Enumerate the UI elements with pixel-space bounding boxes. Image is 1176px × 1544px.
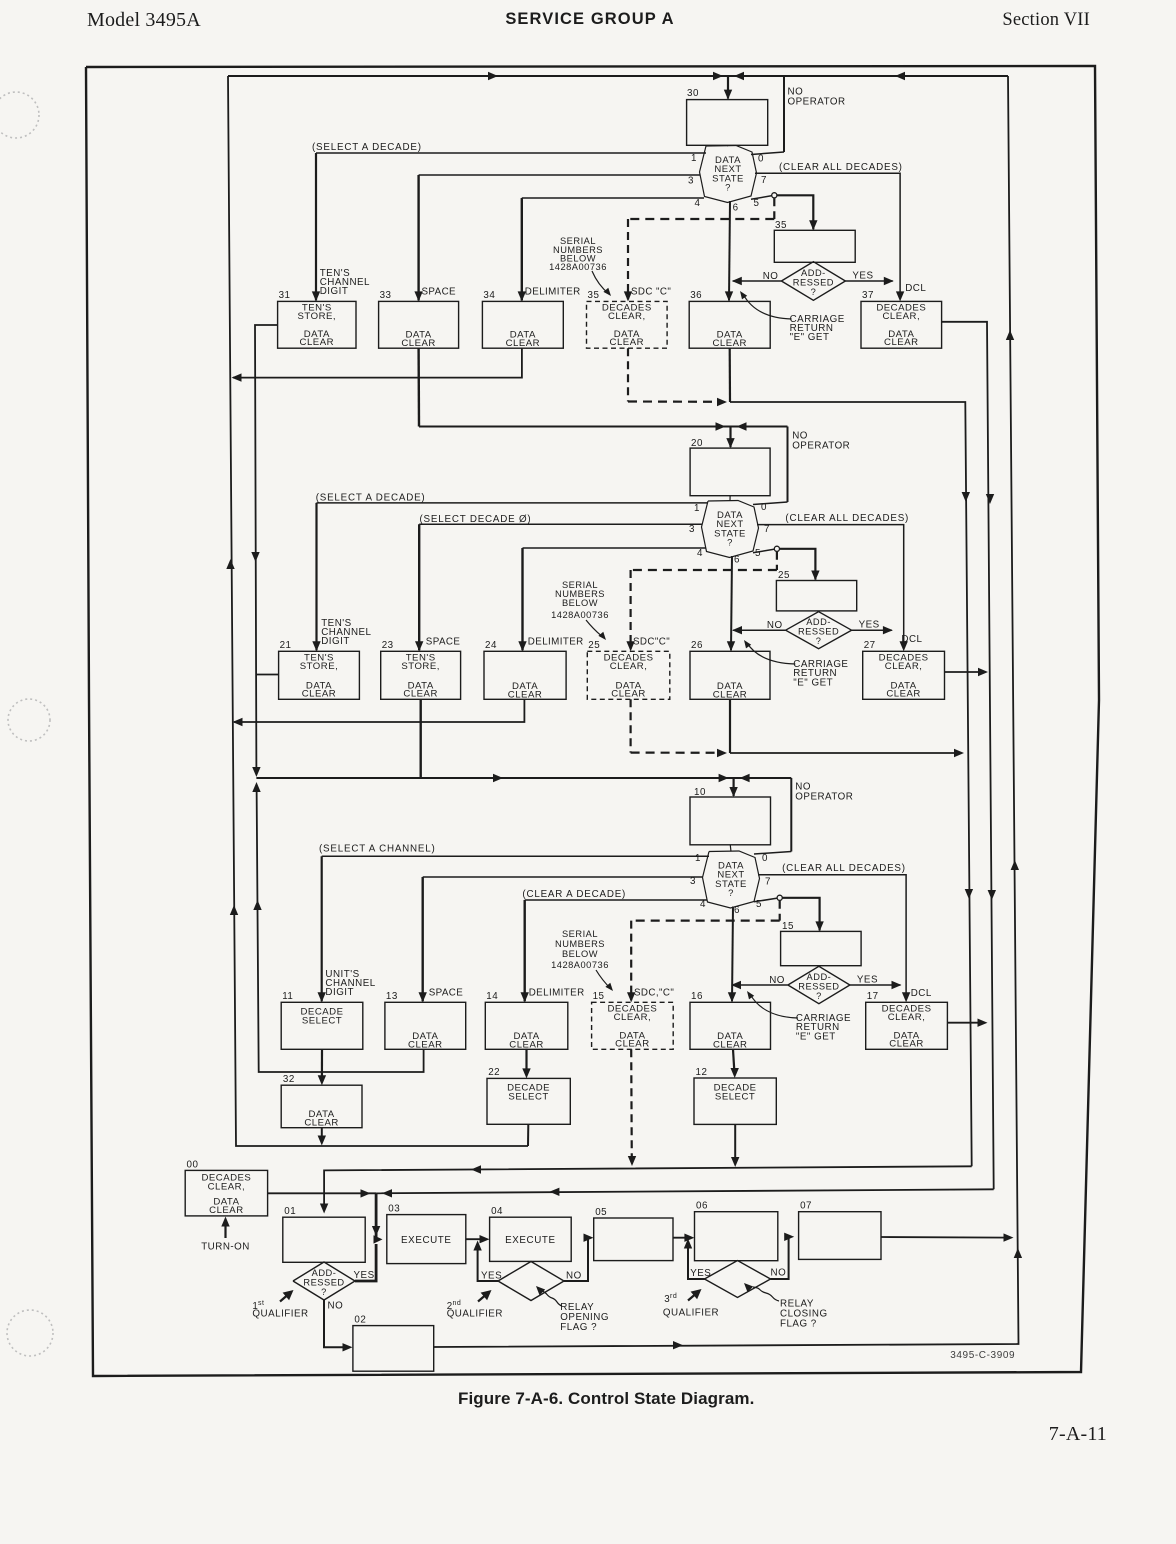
svg-text:32: 32 [283,1074,295,1085]
svg-text:DIGIT: DIGIT [320,286,349,297]
svg-text:31: 31 [279,290,291,301]
svg-text:34: 34 [483,290,495,301]
svg-text:BELOW: BELOW [562,598,598,608]
svg-text:YES: YES [481,1271,502,1282]
svg-text:DIGIT: DIGIT [325,987,354,998]
svg-text:CLEAR: CLEAR [611,688,646,699]
svg-text:(SELECT DECADE Ø): (SELECT DECADE Ø) [420,514,532,525]
svg-text:ADD-: ADD- [312,1268,337,1278]
svg-text:CLEAR,: CLEAR, [888,1012,926,1023]
svg-text:NO: NO [771,1268,787,1279]
svg-text:DCL: DCL [911,988,932,999]
svg-text:1428A00736: 1428A00736 [551,960,609,970]
svg-text:03: 03 [388,1204,400,1215]
svg-text:SDC"C": SDC"C" [633,636,670,647]
svg-text:CLEAR: CLEAR [300,337,335,348]
svg-text:6: 6 [734,905,740,916]
svg-text:02: 02 [354,1315,366,1326]
svg-text:SELECT: SELECT [508,1092,548,1103]
svg-text:?: ? [321,1287,327,1297]
svg-text:EXECUTE: EXECUTE [505,1235,555,1246]
svg-text:00: 00 [187,1160,199,1171]
svg-text:CLEAR,: CLEAR, [885,661,923,672]
svg-text:YES: YES [690,1268,711,1279]
svg-text:ADD-: ADD- [807,972,832,982]
svg-text:1428A00736: 1428A00736 [549,262,607,272]
svg-text:25: 25 [778,570,790,581]
svg-text:26: 26 [691,640,703,651]
svg-text:CLEAR: CLEAR [304,1118,339,1129]
svg-text:CLEAR,: CLEAR, [614,1012,652,1023]
svg-text:rd: rd [670,1293,677,1300]
svg-text:ADD-: ADD- [801,268,826,278]
svg-text:DCL: DCL [901,634,922,645]
svg-text:1: 1 [691,153,697,164]
svg-text:(SELECT A DECADE): (SELECT A DECADE) [312,142,422,153]
svg-text:3495-C-3909: 3495-C-3909 [950,1350,1015,1361]
svg-text:06: 06 [696,1201,708,1212]
svg-text:DELIMITER: DELIMITER [525,286,581,297]
svg-text:35: 35 [588,290,600,301]
svg-text:Model 3495A: Model 3495A [87,9,201,31]
svg-text:12: 12 [696,1067,708,1078]
svg-text:CLEAR,: CLEAR, [208,1182,246,1193]
svg-text:CLEAR: CLEAR [886,688,921,699]
svg-text:?: ? [816,636,822,646]
svg-text:7-A-11: 7-A-11 [1049,1423,1107,1445]
svg-text:CLEAR: CLEAR [401,338,436,349]
svg-text:TURN-ON: TURN-ON [201,1242,250,1253]
svg-text:CLEAR: CLEAR [615,1038,650,1049]
svg-text:SERVICE GROUP A: SERVICE GROUP A [505,10,674,28]
svg-text:14: 14 [486,991,498,1002]
svg-text:"E" GET: "E" GET [790,332,830,343]
svg-text:YES: YES [859,620,880,631]
svg-text:NO: NO [767,620,783,631]
svg-text:0: 0 [758,154,764,165]
svg-text:NO: NO [763,271,779,282]
svg-text:35: 35 [775,220,787,231]
svg-text:Figure 7-A-6. Control State D: Figure 7-A-6. Control State Diagram. [458,1389,754,1408]
svg-text:16: 16 [691,991,703,1002]
svg-text:?: ? [727,538,733,549]
svg-text:04: 04 [491,1206,503,1217]
svg-text:SDC "C": SDC "C" [631,286,671,297]
svg-text:STORE,: STORE, [401,661,440,672]
svg-text:CLEAR: CLEAR [713,689,748,700]
svg-text:1: 1 [694,503,700,514]
svg-text:7: 7 [761,175,767,186]
svg-text:0: 0 [762,853,768,864]
svg-text:CLEAR: CLEAR [508,689,543,700]
svg-text:CLEAR: CLEAR [209,1205,244,1216]
svg-text:DIGIT: DIGIT [321,636,350,647]
svg-text:DELIMITER: DELIMITER [529,987,585,998]
svg-text:CLEAR: CLEAR [403,688,438,699]
svg-text:YES: YES [857,975,878,986]
svg-text:24: 24 [485,640,497,651]
svg-text:FLAG ?: FLAG ? [780,1319,817,1330]
svg-text:OPERATOR: OPERATOR [795,792,853,803]
svg-text:YES: YES [354,1270,375,1281]
svg-text:YES: YES [852,271,873,282]
svg-text:?: ? [728,888,734,899]
svg-text:(SELECT A DECADE): (SELECT A DECADE) [316,492,426,503]
svg-text:6: 6 [734,555,740,566]
svg-text:ADD-: ADD- [806,617,831,627]
svg-text:7: 7 [764,524,770,535]
svg-text:NO: NO [769,975,785,986]
svg-text:CLEAR: CLEAR [884,337,919,348]
svg-text:BELOW: BELOW [562,949,598,959]
svg-text:21: 21 [280,640,292,651]
svg-text:(CLEAR ALL DECADES): (CLEAR ALL DECADES) [779,162,903,173]
svg-text:STORE,: STORE, [300,661,339,672]
svg-text:(CLEAR ALL DECADES): (CLEAR ALL DECADES) [782,863,906,874]
svg-text:OPERATOR: OPERATOR [792,441,850,452]
svg-text:CLEAR: CLEAR [889,1038,924,1049]
svg-text:CLEAR: CLEAR [408,1039,443,1050]
svg-text:(SELECT A CHANNEL): (SELECT A CHANNEL) [319,844,436,855]
svg-text:37: 37 [862,290,874,301]
svg-text:36: 36 [690,290,702,301]
svg-text:RESSED: RESSED [798,627,839,637]
svg-text:17: 17 [867,991,879,1002]
svg-text:Section VII: Section VII [1002,10,1090,30]
svg-text:FLAG ?: FLAG ? [560,1322,597,1333]
svg-text:?: ? [811,287,817,297]
svg-text:EXECUTE: EXECUTE [401,1235,451,1246]
svg-text:07: 07 [800,1201,812,1212]
svg-text:"E" GET: "E" GET [796,1032,836,1043]
svg-text:15: 15 [593,991,605,1002]
svg-text:7: 7 [765,877,771,888]
svg-text:RESSED: RESSED [793,278,834,288]
svg-text:STORE,: STORE, [298,311,337,322]
svg-text:RESSED: RESSED [798,982,839,992]
svg-text:4: 4 [697,548,703,559]
svg-text:QUALIFIER: QUALIFIER [663,1308,719,1319]
svg-text:25: 25 [588,640,600,651]
svg-text:4: 4 [695,198,701,209]
svg-text:DELIMITER: DELIMITER [528,636,584,647]
svg-text:6: 6 [733,203,739,214]
svg-text:CLEAR,: CLEAR, [608,311,646,322]
svg-text:CLEAR: CLEAR [610,337,645,348]
svg-text:1428A00736: 1428A00736 [551,610,609,620]
svg-text:CLEAR,: CLEAR, [882,311,920,322]
svg-text:30: 30 [687,88,699,99]
svg-text:SPACE: SPACE [429,987,464,998]
svg-text:"E" GET: "E" GET [793,678,833,689]
svg-text:SPACE: SPACE [422,286,457,297]
svg-text:SDC,"C": SDC,"C" [634,987,674,998]
svg-text:01: 01 [284,1206,296,1217]
svg-text:CLEAR: CLEAR [712,338,747,349]
svg-text:10: 10 [694,787,706,798]
svg-text:?: ? [816,991,822,1001]
svg-text:11: 11 [282,991,293,1002]
svg-text:3: 3 [688,176,694,187]
svg-text:20: 20 [691,438,703,449]
svg-text:05: 05 [595,1207,607,1218]
svg-text:1: 1 [695,853,701,864]
svg-text:3: 3 [689,524,695,535]
svg-text:QUALIFIER: QUALIFIER [447,1309,503,1320]
svg-text:?: ? [725,183,731,194]
svg-text:5: 5 [755,548,761,559]
svg-text:OPERATOR: OPERATOR [788,97,846,108]
svg-text:CLEAR,: CLEAR, [610,661,648,672]
svg-text:NO: NO [328,1301,344,1312]
svg-text:SPACE: SPACE [426,636,461,647]
svg-text:33: 33 [380,290,392,301]
svg-text:nd: nd [453,1300,462,1307]
svg-text:CLEAR: CLEAR [506,338,541,349]
svg-text:SERIAL: SERIAL [562,929,598,939]
svg-text:27: 27 [864,640,876,651]
svg-text:NO: NO [566,1271,582,1282]
svg-text:15: 15 [782,921,794,932]
svg-text:CLEAR: CLEAR [713,1039,748,1050]
svg-text:CLEAR: CLEAR [302,688,337,699]
svg-text:13: 13 [386,991,398,1002]
svg-text:st: st [258,1300,264,1307]
svg-text:(CLEAR A DECADE): (CLEAR A DECADE) [522,889,626,900]
svg-text:22: 22 [488,1067,500,1078]
svg-text:5: 5 [754,198,760,209]
svg-text:23: 23 [382,640,394,651]
svg-text:RESSED: RESSED [303,1278,344,1288]
svg-text:NUMBERS: NUMBERS [555,939,605,949]
svg-text:DCL: DCL [905,283,926,294]
svg-text:(CLEAR ALL DECADES): (CLEAR ALL DECADES) [785,513,909,524]
svg-text:SELECT: SELECT [302,1015,342,1026]
svg-text:SELECT: SELECT [715,1092,755,1103]
svg-text:QUALIFIER: QUALIFIER [252,1309,308,1320]
svg-text:0: 0 [761,502,767,513]
